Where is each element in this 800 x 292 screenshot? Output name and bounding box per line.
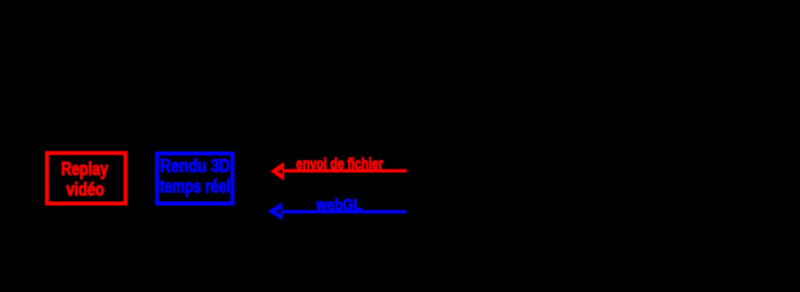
svg-text:Replay: Replay bbox=[61, 159, 108, 179]
svg-text:temps réel: temps réel bbox=[160, 177, 231, 197]
svg-text:vidéo: vidéo bbox=[66, 179, 104, 199]
svg-text:webGL: webGL bbox=[315, 197, 362, 214]
svg-text:Rendu 3D: Rendu 3D bbox=[160, 156, 230, 176]
svg-text:envoi de fichier: envoi de fichier bbox=[296, 156, 383, 173]
